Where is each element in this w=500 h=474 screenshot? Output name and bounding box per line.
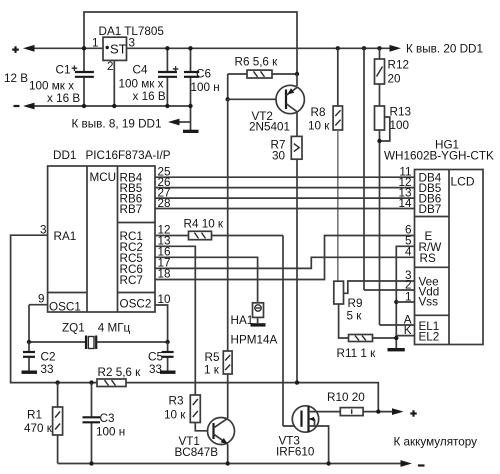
svg-text:OSC1: OSC1 — [49, 301, 81, 314]
svg-text:RC7: RC7 — [120, 274, 143, 287]
svg-text:RS: RS — [420, 252, 436, 265]
svg-text:х 16 В: х 16 В — [133, 90, 166, 103]
svg-text:K: K — [404, 324, 412, 337]
svg-text:18: 18 — [158, 268, 171, 281]
svg-text:К выв. 8, 19 DD1: К выв. 8, 19 DD1 — [72, 118, 162, 131]
svg-text:OSC2: OSC2 — [120, 298, 152, 311]
svg-text:1: 1 — [92, 37, 99, 50]
svg-text:R2 5,6 к: R2 5,6 к — [98, 366, 142, 379]
svg-text:1: 1 — [405, 290, 412, 303]
svg-text:R5: R5 — [205, 351, 220, 364]
svg-text:100 н: 100 н — [96, 426, 125, 439]
svg-text:R1: R1 — [27, 409, 42, 422]
svg-text:470 к: 470 к — [24, 422, 53, 435]
svg-text:HA1: HA1 — [231, 314, 254, 327]
svg-text:C2: C2 — [41, 351, 56, 364]
svg-text:20: 20 — [388, 73, 402, 86]
svg-text:3: 3 — [40, 223, 47, 236]
svg-text:5 к: 5 к — [347, 310, 363, 323]
svg-text:4: 4 — [405, 245, 412, 258]
svg-text:R8: R8 — [311, 106, 326, 119]
svg-text:IRF610: IRF610 — [276, 446, 315, 459]
svg-text:RA1: RA1 — [54, 230, 77, 243]
svg-text:33: 33 — [149, 363, 162, 376]
svg-text:14: 14 — [398, 197, 412, 210]
svg-text:BC847B: BC847B — [175, 446, 219, 459]
svg-text:MCU: MCU — [90, 171, 117, 184]
svg-text:К выв. 20 DD1: К выв. 20 DD1 — [406, 43, 483, 56]
svg-text:10: 10 — [158, 293, 172, 306]
svg-text:ST: ST — [110, 42, 127, 57]
svg-text:К аккумулятору: К аккумулятору — [394, 436, 478, 449]
svg-text:10 к: 10 к — [308, 120, 330, 133]
svg-text:2: 2 — [107, 60, 114, 73]
svg-text:C1: C1 — [56, 64, 71, 77]
svg-text:R13: R13 — [390, 106, 411, 119]
svg-text:33: 33 — [41, 363, 54, 376]
svg-text:3: 3 — [129, 37, 136, 50]
svg-text:PIC16F873A-I/P: PIC16F873A-I/P — [86, 149, 171, 162]
svg-text:EL2: EL2 — [419, 331, 440, 344]
svg-text:C5: C5 — [148, 351, 163, 364]
svg-text:DD1: DD1 — [53, 149, 76, 162]
svg-text:C4: C4 — [133, 64, 148, 77]
svg-text:LCD: LCD — [451, 175, 475, 189]
svg-text:1 к: 1 к — [204, 364, 220, 377]
svg-text:ZQ1 4 МГц: ZQ1 4 МГц — [62, 322, 131, 335]
svg-text:R6 5,6 к: R6 5,6 к — [235, 56, 279, 69]
svg-text:х 16 В: х 16 В — [47, 92, 80, 105]
svg-text:Vss: Vss — [419, 295, 439, 308]
svg-text:R12: R12 — [388, 59, 409, 72]
svg-text:R9: R9 — [348, 297, 363, 310]
svg-text:C3: C3 — [100, 412, 115, 425]
svg-text:C6: C6 — [196, 68, 211, 81]
svg-text:9: 9 — [38, 293, 45, 306]
svg-text:10 к: 10 к — [164, 409, 186, 422]
svg-text:R11 1 к: R11 1 к — [337, 347, 377, 360]
svg-text:100 н: 100 н — [191, 81, 220, 94]
svg-text:100: 100 — [390, 119, 410, 132]
svg-text:30: 30 — [272, 150, 286, 163]
svg-text:100 мк х: 100 мк х — [119, 78, 164, 91]
svg-text:WH1602B-YGH-CTK: WH1602B-YGH-CTK — [384, 150, 494, 163]
svg-text:R4 10 к: R4 10 к — [184, 218, 224, 231]
svg-text:100 мк х: 100 мк х — [29, 80, 74, 93]
svg-text:RB7: RB7 — [120, 203, 143, 216]
svg-text:R10 20: R10 20 — [327, 391, 365, 404]
svg-text:DB7: DB7 — [419, 203, 442, 216]
svg-text:12 В: 12 В — [4, 72, 28, 85]
svg-text:2N5401: 2N5401 — [249, 121, 290, 134]
svg-text:R3: R3 — [169, 395, 184, 408]
svg-text:28: 28 — [158, 197, 171, 210]
svg-text:HPM14A: HPM14A — [231, 334, 278, 347]
